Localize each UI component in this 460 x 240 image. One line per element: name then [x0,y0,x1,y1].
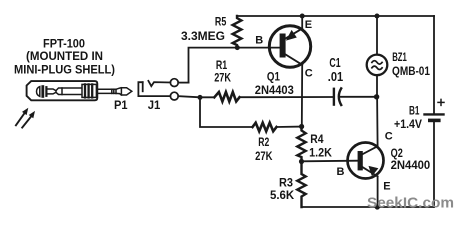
jack J1 sleeve contact [138,95,170,97]
svg-text:BZ1: BZ1 [392,52,407,64]
resistor R4 [297,127,305,162]
svg-text:R2: R2 [258,137,269,149]
svg-text:R3: R3 [279,178,293,190]
svg-text:+1.4V: +1.4V [394,119,422,131]
svg-text:SeekIC.com: SeekIC.com [367,194,454,211]
svg-text:2N4400: 2N4400 [391,158,431,172]
wire Q2 emitter to bottom rail [377,176,379,207]
wire R1 to capacitor C1 [240,96,334,98]
wire top supply rail [237,15,434,17]
light arrow 1 [16,108,28,126]
wire tip terminal stub [178,82,188,84]
svg-text:R1: R1 [216,60,228,72]
transistor Q2 [348,143,384,179]
svg-text:B: B [337,166,345,178]
svg-text:3.3MEG: 3.3MEG [181,31,225,43]
jack J1 frame [138,82,142,96]
plug shaft (sleeve) [97,89,116,93]
node junction dot R4/R3/Q2 base [299,159,304,164]
svg-text:B: B [255,34,263,46]
svg-text:5.6K: 5.6K [270,190,295,202]
light arrow 2 [22,111,35,128]
wire branch down to R2 [200,97,253,127]
svg-text:QMB-01: QMB-01 [392,66,431,78]
jack J1 tip spring contact [148,81,170,86]
wire right rail lower (battery - to bottom rail) [433,122,435,207]
svg-text:27K: 27K [255,151,273,163]
svg-text:C: C [385,131,393,143]
resistor R3 [297,162,305,208]
svg-text:R5: R5 [215,16,227,28]
buzzer BZ1 [367,16,388,97]
transistor Q1 [269,26,310,67]
capacitor C1 [334,88,341,105]
wire bottom rail [302,206,435,208]
svg-text:C: C [305,67,313,79]
svg-text:R4: R4 [310,134,324,146]
svg-text:Q1: Q1 [267,72,281,84]
wire sleeve terminal to R1 [178,96,214,97]
plug body inside shell [56,88,82,95]
wire right rail upper (to battery +) [433,16,435,113]
svg-text:1.2K: 1.2K [309,147,332,159]
resistor R2 [253,123,277,132]
plug tip [116,88,132,95]
wire R4/R3 node to Q2 base [302,160,358,163]
node junction dot Q1 emitter / top rail [300,14,305,19]
svg-text:2N4403: 2N4403 [255,83,294,97]
wire C1 to BZ1/collector line [341,96,377,98]
plug collar (knurled nut) [82,84,96,97]
phototransistor FPT-100 inside shell [37,87,56,97]
node junction dot R5/base wire [235,45,240,50]
wire R2 to collector node [277,126,302,128]
node junction dot sleeve/R2 branch [198,95,203,100]
svg-text:P1: P1 [114,98,128,112]
jack J1 tip terminal circle [170,79,178,87]
svg-text:E: E [383,181,390,193]
node junction dot C1/BZ1/Q2 collector [374,94,379,99]
jack J1 sleeve terminal circle [170,92,178,100]
wire Q2 collector up to C1/BZ1 node [376,97,379,146]
node junction dot Q2 emitter / bottom rail [375,204,380,209]
svg-text:E: E [305,19,312,31]
svg-text:27K: 27K [214,73,231,85]
svg-text:C1: C1 [329,56,340,70]
svg-text:J1: J1 [148,98,161,112]
svg-text:B1: B1 [409,105,420,117]
wire Q1 collector down [301,65,303,127]
battery B1 [425,99,445,120]
svg-text:.01: .01 [328,70,343,84]
svg-text:MINI-PLUG SHELL): MINI-PLUG SHELL) [14,62,115,76]
phototransistor plug P1 shell [27,81,98,100]
wire Q1 emitter to top rail [301,16,303,29]
resistor R1 [214,92,239,102]
svg-text:(MOUNTED IN: (MOUNTED IN [26,49,103,63]
resistor R5 [233,16,242,48]
node junction dot BZ1 / top rail [375,14,380,19]
wire J1 tip contact to Q1 base [189,48,281,83]
node junction dot collector/R2/R4 [299,124,304,129]
